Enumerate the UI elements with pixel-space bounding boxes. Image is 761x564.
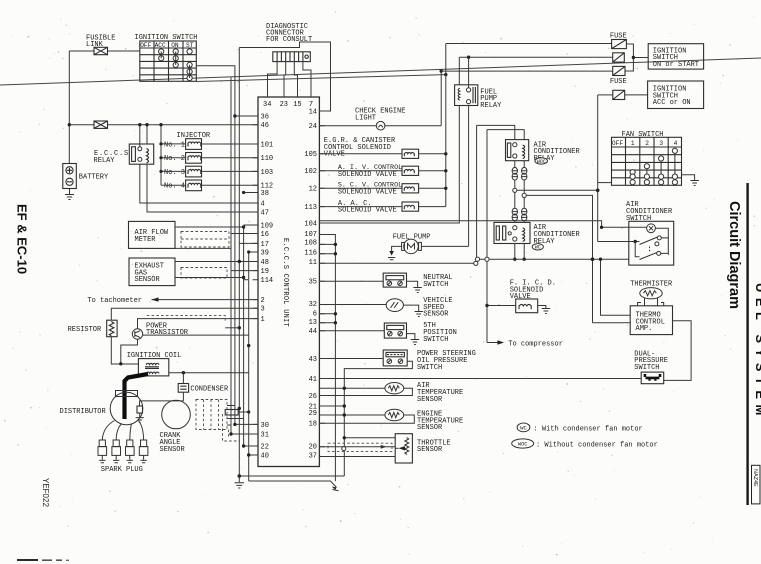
wire: pin 43 to PS switch: [319, 358, 383, 360]
wire: to thermo amp bus: [526, 195, 592, 322]
svg-text:: Without condenser fan motor: : Without condenser fan motor: [536, 441, 658, 449]
shield dashed around wiper: [328, 443, 392, 451]
svg-text:1: 1: [261, 316, 265, 324]
wire: pin 44 to 5th switch: [319, 330, 384, 332]
ground (main): [235, 476, 244, 488]
svg-text:OFF: OFF: [140, 42, 151, 49]
neutral switch: [383, 273, 406, 287]
svg-text:FUSE: FUSE: [610, 78, 627, 86]
svg-text:114: 114: [261, 277, 274, 285]
E.C.C.S relay body: [129, 144, 153, 164]
svg-text:VALVE: VALVE: [324, 151, 345, 159]
svg-text:12: 12: [309, 186, 317, 194]
F.I.C.D solenoid valve: [516, 299, 538, 313]
wire: relay contact feed: [139, 125, 141, 147]
wire: fuel pump right from relay: [421, 245, 468, 247]
wire: continue down to WC relay: [514, 192, 516, 208]
wire: pin 32 to speed sensor: [319, 304, 386, 306]
wire: main feed vertical bus: [68, 51, 70, 164]
wire: exhaust sensor shield to bus: [175, 277, 244, 279]
wire: accessory bus down right side: [597, 95, 599, 242]
svg-text:ACC or ON: ACC or ON: [653, 99, 691, 107]
svg-text:WOC: WOC: [518, 442, 528, 448]
wire: solenoid feed bus x446: [445, 44, 447, 207]
svg-text:4: 4: [674, 140, 678, 147]
wire: pin 40: [249, 454, 258, 456]
wire: pin 19 stub: [231, 270, 258, 272]
svg-text:34: 34: [263, 101, 271, 109]
shielded cable (exhaust gas sensor): [181, 268, 227, 279]
wire: relay output to ECCS pin 4: [140, 164, 258, 203]
svg-text:104: 104: [304, 220, 317, 228]
high tension lead (thick): [125, 374, 149, 419]
svg-text:16: 16: [261, 231, 269, 239]
wire: pin 30: [235, 423, 258, 425]
svg-text:20: 20: [309, 443, 317, 451]
wire: air temp signal: [319, 387, 385, 389]
wire: feed to fusible link and ignition switch: [69, 50, 94, 52]
svg-text:29: 29: [309, 410, 317, 418]
svg-text:6: 6: [313, 310, 317, 318]
wire: pin 6 to ground bus: [319, 313, 335, 315]
svg-text:Circuit Diagram: Circuit Diagram: [726, 201, 742, 309]
right edge small code box: [752, 465, 761, 504]
svg-text:15: 15: [293, 101, 301, 109]
svg-text:DISTRIBUTOR: DISTRIBUTOR: [60, 408, 107, 416]
ground (battery): [65, 189, 74, 200]
E.C.C.S control unit box: [258, 97, 319, 467]
thermo control amp box: [630, 306, 672, 335]
svg-text:UEL SYSTEM: UEL SYSTEM: [753, 283, 761, 421]
ECCS left pin numbers: [261, 113, 274, 460]
node junction dot at x446: [444, 73, 447, 76]
svg-text:SENSOR: SENSOR: [417, 424, 443, 432]
wire: fuel pump left to ground: [392, 246, 402, 251]
A/C switch contacts: [640, 236, 669, 260]
wire: coil secondary out to condenser junction: [169, 372, 249, 374]
wire: relay coil feed from fuse row2: [458, 57, 460, 85]
wire: pin 31: [231, 433, 258, 435]
svg-text:2: 2: [261, 297, 265, 305]
svg-text:CONDENSER: CONDENSER: [190, 385, 229, 393]
wire: air temp return loop to pin 26: [319, 388, 412, 395]
svg-text:23: 23: [280, 101, 288, 109]
dual pressure contact glyph: [644, 374, 662, 381]
svg-text:: With condenser fan motor: : With condenser fan motor: [534, 425, 643, 433]
svg-text:41: 41: [309, 376, 317, 384]
fuse 3: [613, 66, 625, 75]
page fold line (long slanted scan line across page): [0, 58, 761, 85]
wire: pin 41 long run to dual-pressure switch: [319, 378, 641, 380]
crank angle sensor: [162, 400, 191, 429]
svg-text:VALVE: VALVE: [510, 293, 531, 301]
air temperature sensor: [385, 383, 404, 394]
wire: bus E (x248.7): [248, 252, 250, 481]
svg-text:113: 113: [304, 204, 317, 212]
thermistor legs: [638, 298, 664, 306]
wire: pin 3 to resistor: [111, 308, 258, 320]
node junction dot at x441: [440, 69, 443, 72]
svg-text:ON or START: ON or START: [653, 61, 699, 69]
svg-text:26: 26: [309, 393, 317, 401]
wire: fuse4 wiring: [598, 94, 613, 96]
wire: fuse right-side link: [625, 44, 633, 71]
svg-text:TRANSISTOR: TRANSISTOR: [146, 329, 189, 337]
wire: crank sensor signals: [227, 405, 235, 407]
svg-text:30: 30: [261, 422, 269, 430]
shield dashed line over base wire: [147, 316, 226, 321]
svg-text:4: 4: [261, 200, 265, 208]
wire: pin 22: [244, 445, 258, 447]
ECCS left pin stubs: [253, 116, 259, 455]
svg-text:To compressor: To compressor: [508, 340, 563, 348]
wire: relay outputs down: [514, 161, 516, 168]
power steering oil pressure switch: [383, 350, 407, 366]
wire: light feed up to fuse bus: [440, 71, 442, 126]
throttle sensor: [395, 434, 412, 463]
svg-text:NAZ4E: NAZ4E: [752, 469, 758, 487]
air conditioner relay (WC): [494, 222, 530, 243]
svg-text:105: 105: [304, 151, 317, 159]
wire: injector feed bus: [160, 125, 162, 186]
svg-text:SWITCH: SWITCH: [634, 364, 659, 372]
svg-text:32: 32: [309, 301, 317, 309]
wire: pin 114 stub: [244, 279, 248, 281]
air conditioner relay (WOC): [506, 140, 529, 161]
spark plugs: [98, 440, 148, 463]
engine temperature sensor: [385, 409, 404, 420]
wire: air flow meter lower: [175, 247, 231, 249]
open junction circles: [513, 188, 517, 192]
wire: to tachometer (pin 2): [152, 299, 259, 301]
svg-text:108: 108: [304, 240, 317, 248]
fusible link (second): [94, 121, 108, 128]
A/C switch lamp: [647, 224, 656, 233]
wire: FICD ground: [538, 306, 546, 309]
wire: pin 20 wiper: [319, 446, 395, 448]
wire: fan switch feed from acc bus: [598, 182, 612, 184]
wire: link to ignition switch box: [633, 57, 648, 59]
crank sensor shielded drum: [196, 400, 227, 430]
svg-text:43: 43: [309, 356, 317, 364]
wire: shield drain to bus: [225, 327, 239, 329]
svg-text:WC: WC: [535, 245, 541, 251]
wire from ignition switch ST row slanting to bus junction: [196, 75, 445, 82]
svg-text:SWITCH: SWITCH: [423, 336, 448, 344]
exhaust gas sensor: [129, 258, 175, 286]
wire: acc bus into switch: [598, 241, 640, 243]
wire: A/C feed left branch: [477, 125, 515, 139]
diagnostic connector outline box: [239, 42, 330, 111]
svg-text:SOLENOID VALVE: SOLENOID VALVE: [338, 188, 397, 196]
svg-text:39: 39: [261, 249, 269, 257]
wire: pin 16: [231, 233, 258, 235]
ECCS right pin numbers: [304, 108, 317, 460]
svg-text:103: 103: [261, 169, 274, 177]
wire: throttle vcc from sensor bus: [344, 437, 395, 439]
svg-text:No. 3: No. 3: [164, 169, 185, 177]
svg-text:116: 116: [304, 249, 317, 257]
wire: bus D (x243.6): [243, 227, 245, 446]
svg-text:31: 31: [261, 431, 269, 439]
ground (arrow): [332, 487, 337, 490]
wire: consult pin to ECCS pin 15: [294, 62, 297, 91]
node: [68, 123, 71, 126]
wire: second ground run: [249, 481, 337, 488]
wire: pin 13 to ground bus: [319, 322, 335, 324]
svg-text:22: 22: [261, 443, 269, 451]
wire: relay coil return down to pin 104: [319, 106, 459, 224]
svg-text:48: 48: [261, 259, 269, 267]
wire: ignition switch ON output to left bus: [196, 66, 235, 425]
svg-text:FUEL PUMP: FUEL PUMP: [393, 233, 431, 241]
svg-text:46: 46: [261, 122, 269, 130]
svg-text:44: 44: [309, 328, 317, 336]
svg-text:RELAY: RELAY: [480, 102, 502, 110]
svg-text:37: 37: [309, 452, 317, 460]
svg-text:SENSOR: SENSOR: [417, 396, 443, 404]
wire: lamp feed: [602, 226, 647, 228]
svg-text:40: 40: [261, 452, 269, 460]
svg-text:RELAY: RELAY: [94, 157, 116, 165]
wire: engine temp return loop to pin 18: [319, 415, 414, 423]
vehicle speed sensor: [386, 299, 403, 312]
svg-text:FOR CONSULT: FOR CONSULT: [266, 36, 312, 44]
svg-text:SOLENOID VALVE: SOLENOID VALVE: [338, 171, 397, 179]
svg-text:To tachometer: To tachometer: [87, 297, 142, 305]
svg-text:SWITCH: SWITCH: [423, 281, 448, 289]
wire: relay contact out down to fuel pump: [468, 106, 470, 247]
svg-text:109: 109: [261, 222, 274, 230]
ECCS right pin stubs: [319, 111, 325, 457]
wire: amp to dual-pressure switch: [664, 321, 691, 381]
svg-text:107: 107: [304, 231, 317, 239]
wire: bus to fuse row3: [441, 70, 613, 72]
svg-text:RESISTOR: RESISTOR: [68, 326, 102, 334]
wire: resistor bottom to coil +: [111, 337, 138, 364]
wire: speed sensor ground: [403, 305, 418, 311]
wire: to fan switch bus: [517, 189, 598, 191]
inline connectors (second pair): [512, 208, 527, 221]
wire: consult pin to ECCS pin 23: [284, 62, 286, 91]
bottom-left page dashes: [17, 559, 38, 561]
fuse 1: [612, 40, 627, 49]
wire: pin 39: [249, 251, 258, 253]
top pin stubs 34 23 15 7: [268, 91, 312, 98]
wire: battery row to ECCS relay / pin 46: [69, 124, 94, 126]
wire: run to A/C switch lamp: [319, 221, 601, 228]
wire: A/C feed right branch: [487, 130, 524, 140]
svg-text:AMP.: AMP.: [636, 325, 653, 333]
wire: exhaust sensor to pin 48: [175, 261, 258, 263]
svg-text:BATTERY: BATTERY: [79, 174, 109, 182]
svg-text:3: 3: [659, 140, 663, 147]
wire: consult pin to ECCS pin 34: [268, 62, 278, 91]
svg-text:17: 17: [261, 241, 269, 249]
svg-text:ACC: ACC: [155, 42, 166, 49]
svg-text:101: 101: [261, 141, 274, 149]
wire: FICD feed down: [486, 261, 488, 342]
wire: bottom horizontal run: [479, 258, 629, 260]
svg-text:2: 2: [645, 140, 649, 147]
wire: to compressor: [487, 342, 498, 344]
ignition switch ON or START box: [648, 44, 703, 69]
wire: consult pin to ECCS pin 7: [303, 62, 311, 91]
fuse 2: [613, 53, 625, 62]
svg-text:SENSOR: SENSOR: [160, 446, 186, 454]
shielded cable (air flow meter): [181, 232, 229, 248]
wire: relay coil feed: [146, 125, 148, 144]
svg-text:18: 18: [309, 421, 317, 429]
svg-text:LIGHT: LIGHT: [355, 114, 376, 122]
svg-text:LINK: LINK: [86, 41, 104, 49]
fan switch contacts: [630, 148, 678, 185]
wire: ground run under ECCS: [239, 475, 344, 477]
wire: amp left feeds: [601, 259, 631, 315]
svg-text:METER: METER: [135, 236, 157, 244]
node dots where sensor lines meet buses: [238, 407, 241, 410]
ignition switch contacts: [159, 49, 193, 81]
wire: bus C (x239) diag box left edge down to ground: [238, 48, 240, 477]
svg-text:3: 3: [261, 306, 265, 314]
wire: engine temp signal (pin 29): [319, 414, 385, 416]
svg-text:SENSOR: SENSOR: [135, 276, 161, 284]
air flow meter: [129, 221, 176, 248]
svg-text:36: 36: [261, 113, 269, 121]
crank sensor shield dashed drain: [223, 414, 241, 441]
svg-text:SENSOR: SENSOR: [417, 446, 443, 454]
svg-text:1: 1: [631, 140, 635, 147]
svg-text:102: 102: [304, 168, 317, 176]
svg-text:EF & EC-10: EF & EC-10: [15, 204, 30, 274]
svg-text:11: 11: [309, 259, 317, 267]
svg-text:13: 13: [309, 319, 317, 327]
spark plug leads: [102, 421, 114, 441]
wire: WC relay outputs down to bottom run: [514, 244, 516, 260]
wire: fan switch to ground: [682, 175, 695, 181]
svg-text:E.C.C.S CONTROL UNIT: E.C.C.S CONTROL UNIT: [281, 238, 289, 327]
svg-text:19: 19: [261, 268, 269, 276]
inline connectors (pin pairs): [512, 167, 527, 180]
svg-text:SPARK PLUG: SPARK PLUG: [101, 466, 143, 474]
svg-text:WC: WC: [520, 426, 526, 432]
5th position switch: [384, 323, 406, 338]
wire: switch lower pole from bottom run: [635, 242, 639, 257]
crank sensor connector block: [225, 410, 238, 416]
svg-text:ST: ST: [186, 42, 194, 49]
svg-text:24: 24: [309, 123, 317, 131]
right sidebar rule (thick): [746, 183, 748, 505]
distributor cap contact: [137, 406, 143, 413]
svg-text:YEF022: YEF022: [41, 478, 50, 507]
wire: pin 37 to throttle low: [319, 456, 395, 458]
svg-text:No. 4: No. 4: [164, 183, 185, 191]
svg-text:38: 38: [261, 190, 269, 198]
wire: neutral switch ground: [407, 281, 418, 287]
ignition switch ACC or ON box: [648, 81, 704, 109]
wire: air flow meter signal top: [175, 226, 244, 228]
wire: pin 17: [239, 242, 258, 244]
wire: relay output to ECCS pin 47: [147, 164, 258, 212]
wire: bus A (x231): [230, 78, 232, 435]
svg-text:OFF: OFF: [612, 140, 623, 147]
svg-text:110: 110: [261, 155, 274, 163]
fuse 4: [613, 90, 625, 99]
wire: pin 38 stub: [244, 192, 258, 194]
wire: top run to fuse row1: [446, 43, 612, 45]
svg-text:SOLENOID VALVE: SOLENOID VALVE: [338, 207, 397, 215]
fuel pump relay: [455, 85, 478, 106]
wire: pin 21 to sensor ground bus: [319, 405, 344, 407]
diagnostic connector body: [273, 52, 311, 62]
svg-text:14: 14: [309, 108, 317, 116]
wire: pin 35 to neutral switch: [319, 280, 383, 282]
wire: pin 109 stub: [244, 224, 258, 226]
fusible link (top): [94, 47, 108, 54]
wire: 5th switch ground: [407, 334, 415, 340]
condenser: [178, 384, 188, 393]
svg-text:ON: ON: [171, 42, 179, 49]
svg-text:No. 1: No. 1: [164, 141, 185, 149]
wire: pin 1 to transistor base: [138, 319, 259, 329]
wire: pin 11 run to A/C block: [319, 262, 474, 264]
svg-text:SENSOR: SENSOR: [423, 311, 449, 319]
svg-text:35: 35: [309, 279, 317, 287]
wire: relay contact feed: [468, 57, 470, 88]
svg-text:No. 2: No. 2: [164, 155, 185, 163]
battery: [63, 164, 77, 189]
wire: transistor collector to bus: [143, 334, 249, 336]
wire: pin 36 from bus: [235, 115, 258, 117]
svg-text:SWITCH: SWITCH: [417, 364, 442, 372]
wire: PS switch return to sensor-ground bus: [344, 361, 412, 476]
wire: pins 107/108/116 to ground bus x335: [319, 235, 335, 482]
svg-text:WOC: WOC: [537, 159, 546, 165]
wire: transistor emitter: [121, 339, 138, 364]
svg-text:47: 47: [261, 209, 269, 217]
